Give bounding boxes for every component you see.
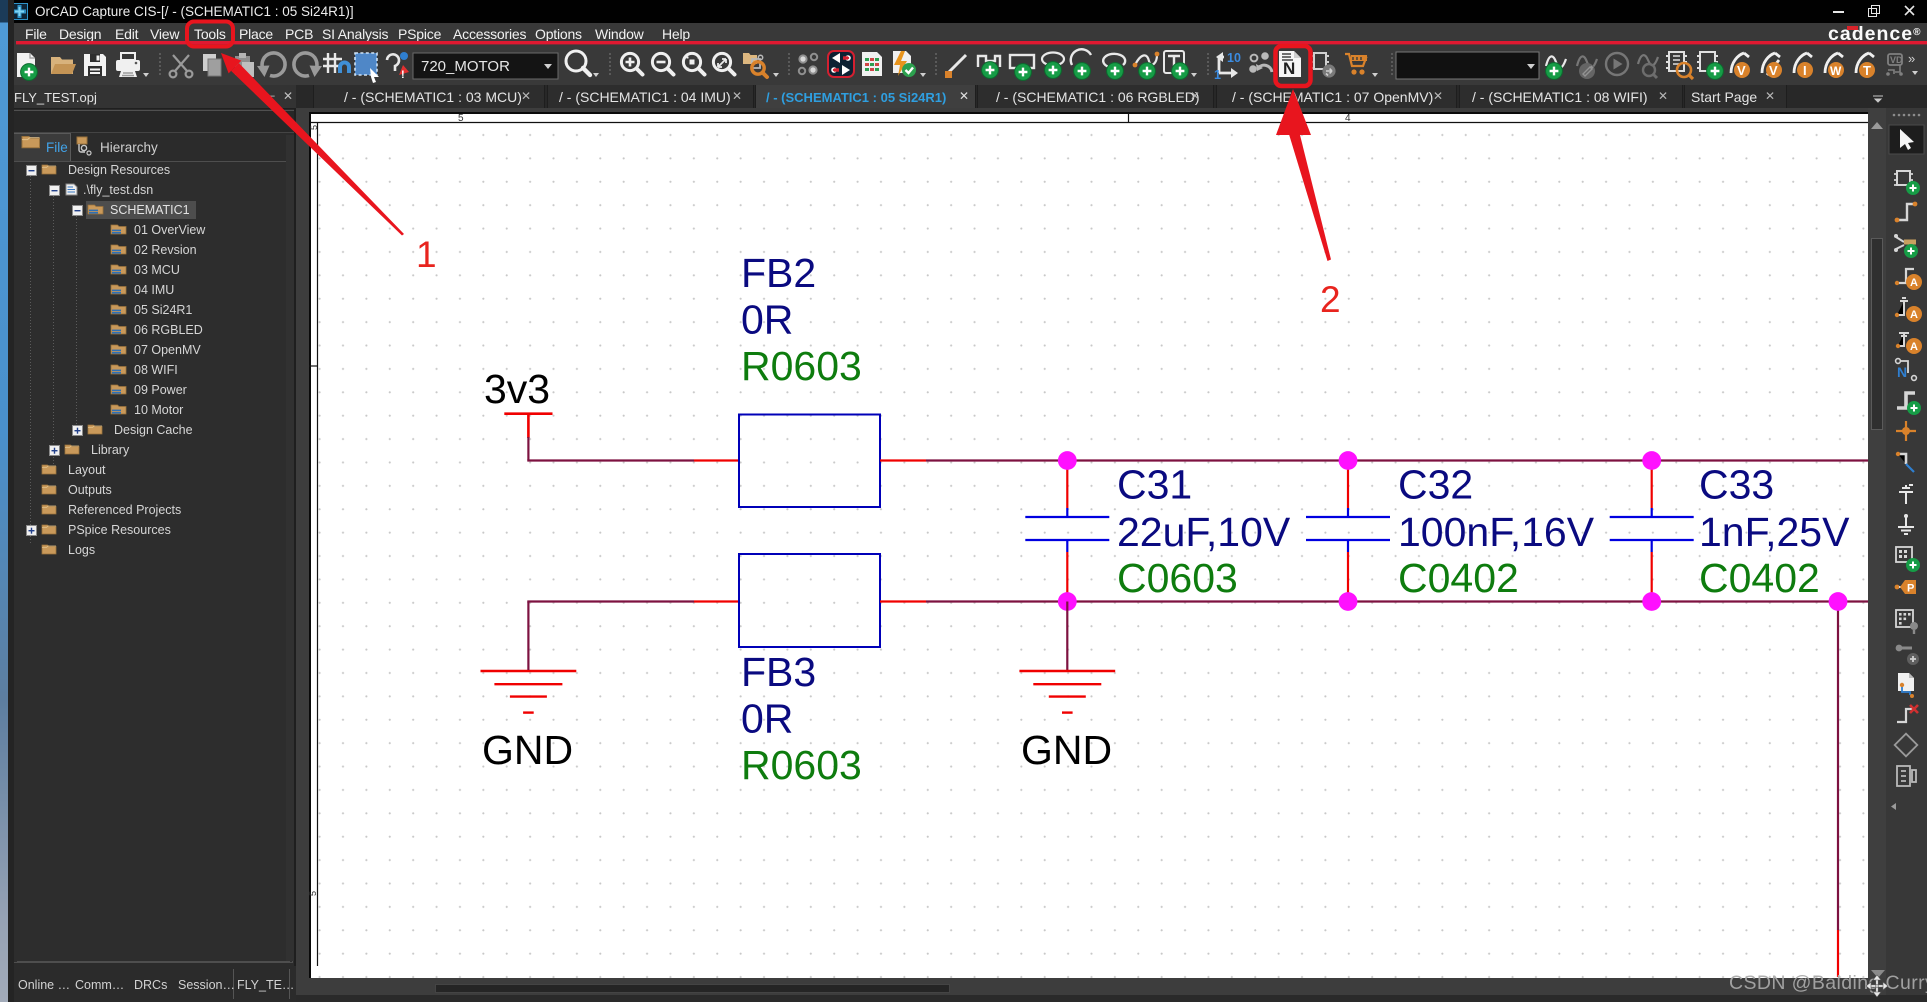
paste	[235, 53, 254, 77]
place bus	[1897, 393, 1921, 415]
wire 3v3 top left segment	[527, 459, 694, 461]
place net alias	[1895, 269, 1922, 290]
bom spreadsheet	[862, 52, 882, 76]
junction C32 bottom	[1339, 592, 1358, 611]
place elliptic arc	[1103, 54, 1125, 80]
redo	[294, 53, 322, 77]
arrow 2	[1276, 89, 1311, 135]
place wire	[1895, 202, 1918, 223]
svg-text:1: 1	[416, 234, 437, 275]
annotate loop	[1214, 51, 1241, 82]
probe T	[1856, 53, 1875, 78]
selection highlight	[86, 201, 196, 219]
app icon	[11, 3, 28, 20]
red underline annotation	[16, 41, 1927, 44]
junction C32 top	[1339, 451, 1358, 470]
shopping cart	[1345, 54, 1367, 75]
red box around Tools menu	[187, 22, 233, 47]
new sim profile	[1546, 56, 1566, 79]
capacitor C31	[1025, 461, 1109, 602]
combo 720_MOTOR	[413, 53, 558, 79]
red box around netlist icon	[1276, 46, 1311, 86]
create netlist	[1697, 52, 1723, 79]
capacitor C32	[1306, 461, 1390, 602]
wire red stub right of FB2	[880, 459, 926, 461]
capacitor C33	[1610, 461, 1694, 602]
wire GND1 vertical	[527, 602, 529, 671]
open	[51, 57, 76, 74]
pin stub red at right drop	[1837, 930, 1839, 977]
place rect2	[1010, 55, 1034, 80]
place ellipse	[1042, 53, 1064, 79]
ground symbol GND1	[481, 671, 577, 713]
svg-text:CSDN @Balding Curry: CSDN @Balding Curry	[1729, 972, 1927, 994]
place net name N	[1896, 359, 1917, 381]
cut	[170, 55, 193, 77]
zone tick left	[309, 365, 318, 367]
edit sim profile	[1577, 56, 1597, 79]
vd marker	[1886, 54, 1903, 76]
zoom scale	[683, 53, 704, 74]
junction C33 bottom	[1642, 592, 1661, 611]
place power	[1895, 298, 1922, 322]
zoom out	[652, 53, 673, 74]
ferrite bead FB2	[739, 415, 880, 508]
wire top net to right edge	[926, 459, 1868, 461]
wire drop at right	[1837, 602, 1839, 931]
File / Hierarchy tabs	[22, 137, 40, 148]
select tool	[1889, 125, 1924, 154]
wire red stub to FB2	[694, 459, 739, 461]
place line	[956, 46, 958, 48]
wire 3v3 vertical	[527, 437, 529, 461]
place ieee symbol	[1895, 734, 1918, 757]
junction right drop	[1829, 592, 1848, 611]
arrow 1	[221, 53, 241, 73]
print	[116, 53, 140, 77]
probe V2	[1762, 53, 1782, 78]
copy	[203, 54, 221, 76]
pan cursor	[1866, 975, 1888, 997]
probe V1	[1731, 53, 1750, 78]
place netgroup	[1894, 234, 1918, 258]
new design	[17, 53, 37, 80]
netlist N icon	[1279, 51, 1301, 78]
place arc	[1071, 49, 1091, 79]
undo	[257, 53, 285, 77]
wire red stub right of FB3	[880, 600, 926, 602]
place port	[1895, 580, 1916, 595]
sim profile combo	[1396, 52, 1539, 79]
probe W	[1825, 53, 1844, 78]
place document	[1898, 673, 1914, 698]
find db	[743, 53, 767, 77]
edit properties	[387, 52, 409, 81]
page border frame	[310, 113, 1868, 966]
save	[84, 54, 106, 76]
place rect1	[978, 56, 1000, 78]
place power symbol	[1899, 485, 1913, 504]
tree dotted guides	[31, 170, 77, 544]
svg-text:2: 2	[1320, 279, 1341, 320]
swap view red	[828, 51, 854, 77]
drc check	[893, 51, 916, 77]
probe I	[1794, 53, 1813, 78]
wire GND2 vertical	[1066, 602, 1068, 671]
junction C33 top	[1642, 451, 1661, 470]
zoom in	[621, 53, 642, 74]
junction C31 top	[1058, 451, 1077, 470]
power symbol 3v3	[504, 414, 552, 438]
rows: y center offsets (row text baseline = y+4)	[27, 166, 37, 176]
selection filter	[355, 53, 379, 83]
place hierarchical block	[1896, 547, 1920, 572]
view netlist	[1666, 52, 1693, 79]
back annotate	[1250, 53, 1272, 72]
zoom area	[713, 53, 734, 74]
place bus entry	[1896, 452, 1914, 472]
cadence logo	[1828, 23, 1927, 46]
place title block	[1897, 766, 1916, 786]
wire bottom net to right edge	[926, 600, 1868, 602]
search part	[566, 51, 590, 75]
run sim	[1606, 53, 1628, 75]
snap to grid icon	[799, 54, 817, 74]
part manager	[1311, 53, 1336, 78]
snap grid	[323, 53, 351, 73]
window buttons	[1820, 0, 1927, 23]
junction C31 bottom	[1058, 592, 1077, 611]
wire bottom net left segment	[527, 600, 694, 602]
ferrite bead FB3	[739, 554, 880, 647]
place text	[1164, 51, 1188, 79]
place no-connect	[1897, 705, 1918, 722]
place ground symbol	[1898, 514, 1914, 534]
place bezier	[1133, 52, 1160, 80]
wire red stub to FB3	[694, 600, 739, 602]
view results	[1638, 55, 1658, 78]
place off-page connector	[1896, 645, 1919, 665]
place part	[1894, 171, 1920, 195]
place pin array	[1896, 610, 1918, 634]
ground symbol GND2	[1019, 671, 1115, 713]
place junction	[1896, 421, 1916, 441]
place ground	[1896, 333, 1922, 354]
